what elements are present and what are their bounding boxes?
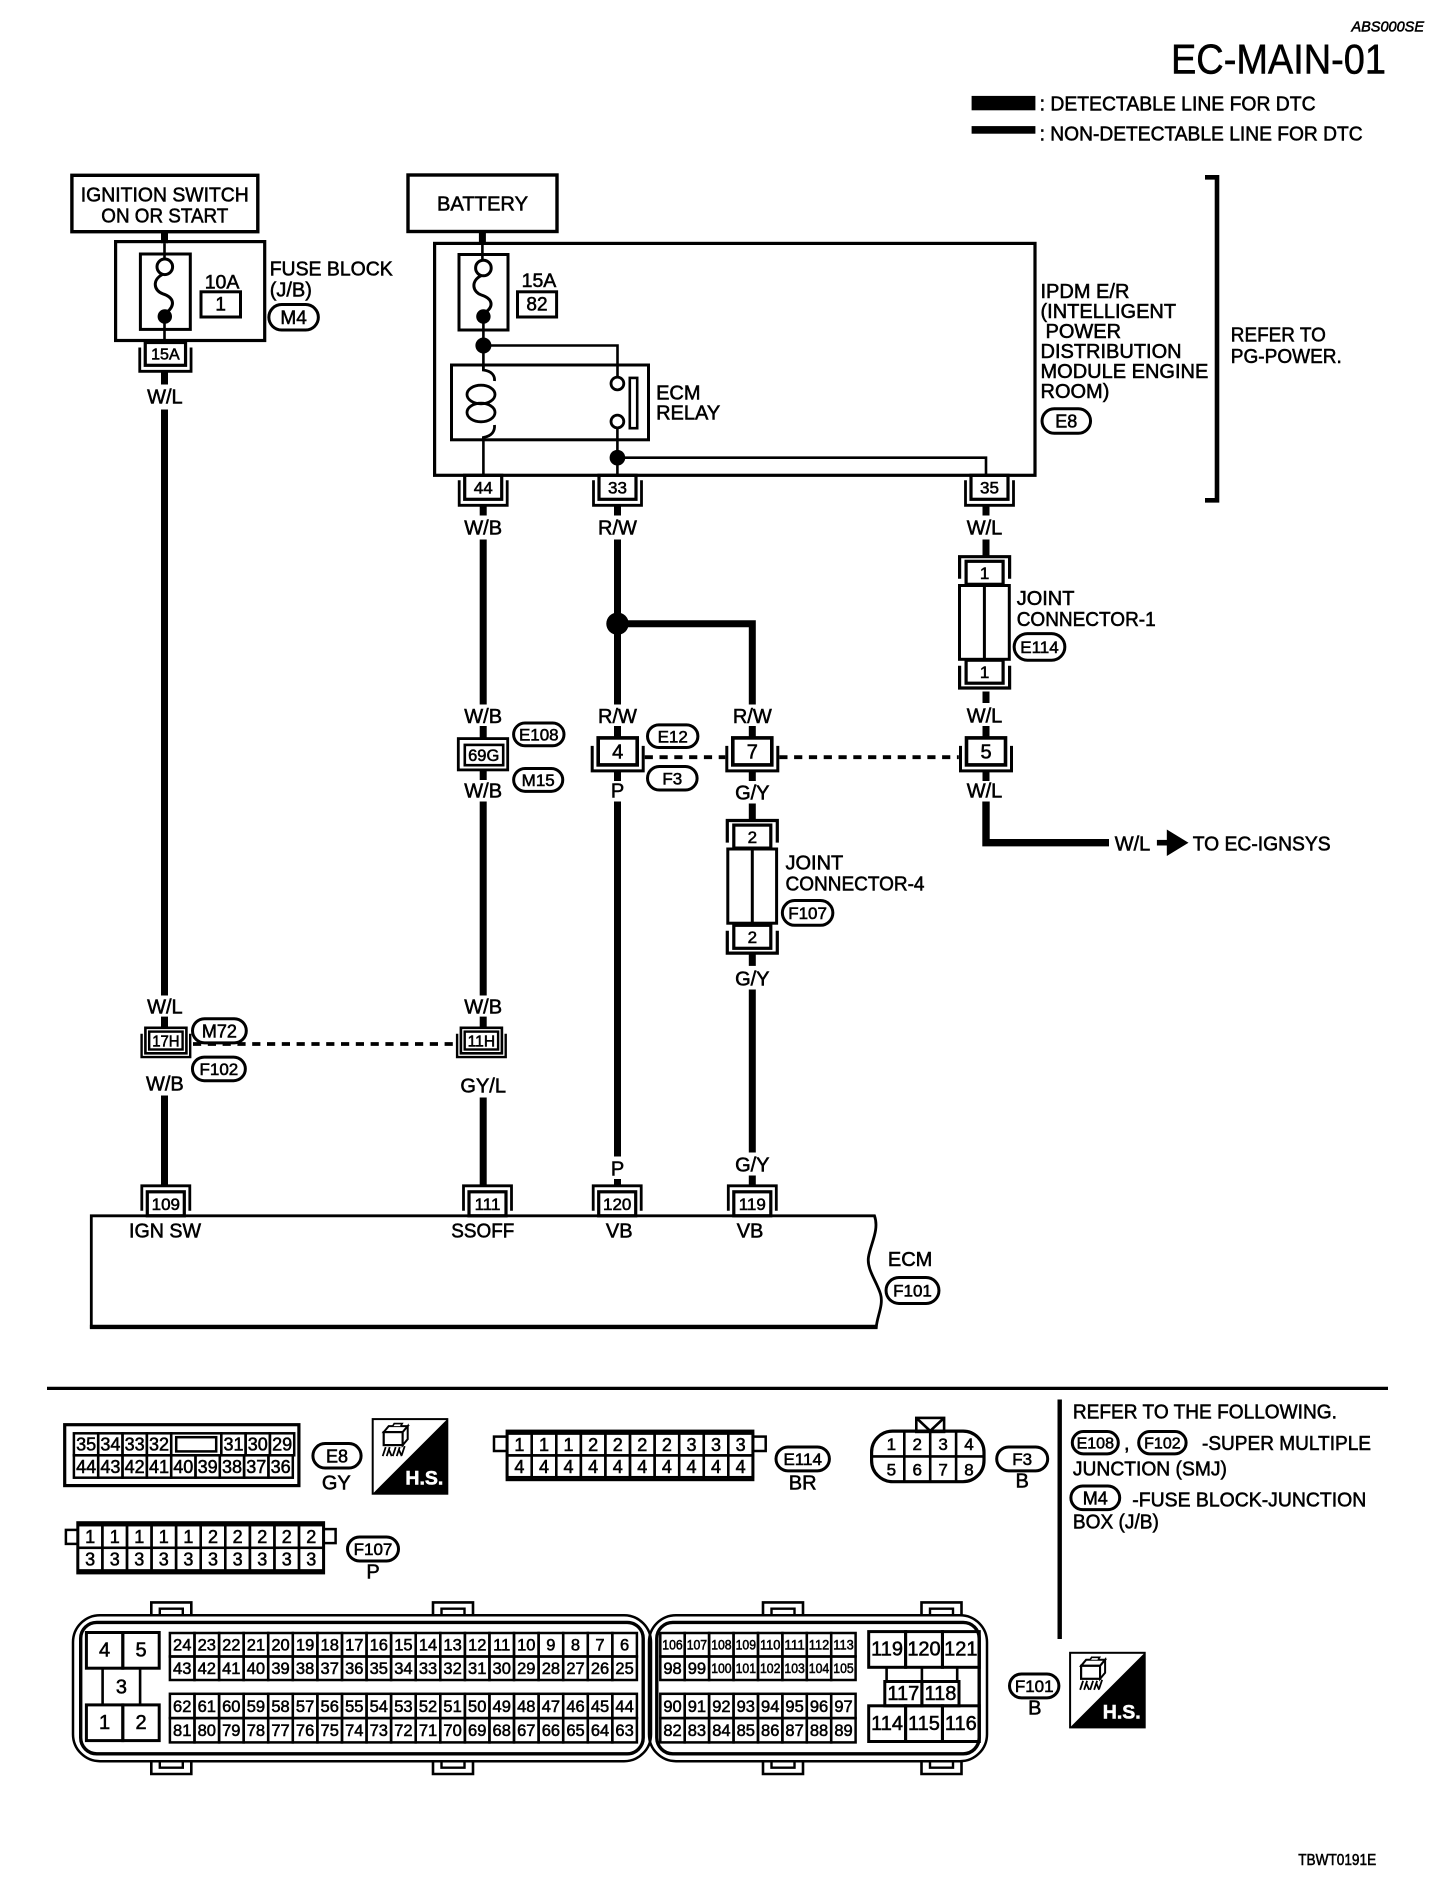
svg-text:40: 40 xyxy=(247,1660,265,1678)
svg-text:2: 2 xyxy=(282,1527,292,1547)
fuse 10A symbol box xyxy=(140,243,190,329)
svg-text:W/B: W/B xyxy=(464,781,502,803)
label GY/L below 11H xyxy=(460,1076,506,1098)
svg-text:3: 3 xyxy=(711,1435,721,1455)
wire W/L ignition column xyxy=(161,410,168,996)
wire stub P to pin 120 xyxy=(614,1179,621,1187)
svg-text:119: 119 xyxy=(871,1639,903,1661)
svg-text:2: 2 xyxy=(233,1527,243,1547)
svg-text:115: 115 xyxy=(908,1713,940,1735)
svg-text:F3: F3 xyxy=(1012,1450,1032,1469)
wire GY/L to ECM pin 111 xyxy=(480,1098,487,1188)
wire G/Y long xyxy=(749,990,756,1153)
svg-text:66: 66 xyxy=(542,1722,560,1740)
svg-text:3: 3 xyxy=(159,1550,169,1570)
svg-text:22: 22 xyxy=(222,1637,240,1655)
svg-text:RELAY: RELAY xyxy=(656,403,720,425)
svg-text:41: 41 xyxy=(222,1660,240,1678)
svg-text:35: 35 xyxy=(980,478,999,497)
doc code TBWT0191E xyxy=(1298,1852,1376,1869)
svg-text:114: 114 xyxy=(871,1713,903,1735)
fuse number 1 box xyxy=(201,292,241,317)
doc code ABS000SE xyxy=(1350,20,1424,36)
svg-text:E108: E108 xyxy=(1077,1435,1114,1452)
label SSOFF xyxy=(451,1221,514,1243)
svg-text:2: 2 xyxy=(588,1435,598,1455)
svg-text:2: 2 xyxy=(637,1435,647,1455)
svg-text:5: 5 xyxy=(135,1640,146,1662)
svg-text:110: 110 xyxy=(760,1638,780,1653)
IPDM terminal 33 xyxy=(594,475,642,505)
svg-text:W/B: W/B xyxy=(146,1074,184,1096)
label TO EC-IGNSYS xyxy=(1193,834,1331,856)
wire W/B column xyxy=(480,540,487,705)
svg-text:G/Y: G/Y xyxy=(735,783,769,805)
svg-text:32: 32 xyxy=(443,1660,461,1678)
svg-text:4: 4 xyxy=(662,1457,672,1477)
svg-text:6: 6 xyxy=(912,1460,921,1479)
svg-text:42: 42 xyxy=(198,1660,216,1678)
svg-text:F102: F102 xyxy=(1144,1435,1181,1452)
connector ref F102 xyxy=(192,1057,245,1081)
svg-text:CONNECTOR-1: CONNECTOR-1 xyxy=(1017,609,1156,631)
svg-text:1: 1 xyxy=(99,1712,110,1734)
fuse 10A element xyxy=(155,259,172,343)
svg-text:80: 80 xyxy=(198,1722,216,1740)
svg-text:21: 21 xyxy=(247,1637,265,1655)
connector view E8 grid xyxy=(65,1425,299,1486)
svg-text:W/L: W/L xyxy=(967,518,1003,540)
wire stub below pin 4 xyxy=(614,771,621,781)
ECM connector left grid rows 62-44 and 81-63 xyxy=(170,1694,637,1743)
label ECM xyxy=(888,1249,932,1271)
svg-text:7: 7 xyxy=(595,1637,604,1655)
svg-text:119: 119 xyxy=(739,1195,766,1214)
svg-text:4: 4 xyxy=(637,1457,647,1477)
svg-text:4: 4 xyxy=(964,1435,973,1454)
svg-text:63: 63 xyxy=(615,1722,633,1740)
svg-text:4: 4 xyxy=(99,1640,110,1662)
svg-text:MODULE ENGINE: MODULE ENGINE xyxy=(1041,361,1209,383)
svg-text:28: 28 xyxy=(542,1660,560,1678)
label G/Y below joint connector 4 xyxy=(735,969,769,991)
svg-text:38: 38 xyxy=(222,1457,242,1477)
IPDM terminal 35 xyxy=(966,475,1014,505)
svg-text:31: 31 xyxy=(468,1660,486,1678)
svg-text:BR: BR xyxy=(789,1473,817,1495)
svg-text:,: , xyxy=(1124,1433,1130,1455)
svg-text:JOINT: JOINT xyxy=(1017,588,1075,610)
svg-text:60: 60 xyxy=(222,1698,240,1716)
svg-text:EC-MAIN-01: EC-MAIN-01 xyxy=(1171,36,1386,83)
svg-text:24: 24 xyxy=(173,1637,191,1655)
connector ref E8 view xyxy=(313,1444,361,1495)
svg-text:2: 2 xyxy=(135,1712,146,1734)
svg-text:56: 56 xyxy=(321,1698,339,1716)
wire stub below joint connector 4 xyxy=(749,953,756,966)
connector view F107 grid xyxy=(66,1523,336,1573)
svg-text:F102: F102 xyxy=(200,1060,239,1079)
svg-text:(INTELLIGENT: (INTELLIGENT xyxy=(1041,301,1177,323)
svg-text:14: 14 xyxy=(419,1637,437,1655)
svg-text:F101: F101 xyxy=(1015,1677,1054,1696)
wire stub into pin 4 xyxy=(614,726,621,738)
ECM box xyxy=(90,1216,881,1327)
svg-text:4: 4 xyxy=(539,1457,549,1477)
svg-text:47: 47 xyxy=(542,1698,560,1716)
svg-text:1: 1 xyxy=(563,1435,573,1455)
svg-text:2: 2 xyxy=(208,1527,218,1547)
svg-text:1: 1 xyxy=(980,564,989,583)
svg-text:69: 69 xyxy=(468,1722,486,1740)
svg-text:33: 33 xyxy=(419,1660,437,1678)
svg-text:8: 8 xyxy=(964,1460,973,1479)
connector ref M4 xyxy=(269,305,319,331)
svg-text:4: 4 xyxy=(613,1457,623,1477)
svg-text:3: 3 xyxy=(257,1550,267,1570)
svg-text:1: 1 xyxy=(183,1527,193,1547)
joint connector-1 top terminal 1 xyxy=(960,557,1010,585)
fuse 15A symbol box xyxy=(459,243,508,330)
IPDM terminal 44 xyxy=(459,475,507,505)
joint connector-4 bottom terminal 2 xyxy=(727,925,777,953)
svg-text:74: 74 xyxy=(345,1722,363,1740)
ECM connector right grid rows 106-113 and 98-105 xyxy=(660,1633,855,1680)
svg-text:15: 15 xyxy=(394,1637,412,1655)
svg-text:121: 121 xyxy=(944,1639,977,1661)
label 10A xyxy=(205,272,240,294)
svg-text:P: P xyxy=(366,1562,379,1584)
ECM terminal 111 xyxy=(464,1186,512,1216)
ECM terminal 120 xyxy=(593,1186,641,1216)
wire battery to IPDM xyxy=(479,232,486,244)
svg-text:R/W: R/W xyxy=(733,706,772,728)
connector ref M72 xyxy=(193,1019,247,1043)
wire junction to relay contact xyxy=(483,346,617,377)
connector ref E114 view xyxy=(776,1447,829,1495)
svg-text:34: 34 xyxy=(100,1435,120,1455)
wire stub below pin 5 xyxy=(983,771,990,781)
label P below pin 4 xyxy=(611,781,624,803)
label IGN SW xyxy=(129,1221,201,1243)
fuse block (J/B) box xyxy=(116,242,265,341)
svg-text:59: 59 xyxy=(247,1698,265,1716)
svg-text:99: 99 xyxy=(688,1660,706,1678)
relay contact circles and bar xyxy=(611,377,637,428)
terminal 7 xyxy=(727,738,778,771)
svg-text:4: 4 xyxy=(563,1457,573,1477)
wire stub below pin 7 xyxy=(749,771,756,781)
label W/L arrow xyxy=(1115,834,1151,856)
svg-text:35: 35 xyxy=(370,1660,388,1678)
svg-text:E114: E114 xyxy=(1020,638,1058,657)
svg-text:41: 41 xyxy=(149,1457,169,1477)
terminal 5 xyxy=(961,738,1012,771)
svg-text:32: 32 xyxy=(149,1435,169,1455)
svg-text:1: 1 xyxy=(159,1527,169,1547)
ECM terminal 109 xyxy=(142,1186,190,1216)
wire W/B to ECM pin 109 xyxy=(161,1096,168,1188)
svg-text:P: P xyxy=(611,1159,624,1181)
svg-text:: NON-DETECTABLE LINE FOR DTC: : NON-DETECTABLE LINE FOR DTC xyxy=(1040,124,1363,146)
label G/Y above pin 119 xyxy=(735,1155,769,1177)
svg-text:ECM: ECM xyxy=(888,1249,932,1271)
svg-text:IPDM E/R: IPDM E/R xyxy=(1041,281,1130,303)
svg-text:P: P xyxy=(611,781,624,803)
svg-text:118: 118 xyxy=(924,1683,956,1705)
svg-text:W/B: W/B xyxy=(464,706,502,728)
svg-text:49: 49 xyxy=(493,1698,511,1716)
svg-text:48: 48 xyxy=(517,1698,535,1716)
separator line xyxy=(47,1387,1388,1390)
svg-text:117: 117 xyxy=(887,1683,919,1705)
svg-text:109: 109 xyxy=(736,1638,756,1653)
svg-text:79: 79 xyxy=(222,1722,240,1740)
svg-text:JOINT: JOINT xyxy=(786,853,844,875)
label VB pin 120 xyxy=(606,1221,633,1243)
svg-text:23: 23 xyxy=(198,1637,216,1655)
svg-text:109: 109 xyxy=(152,1195,180,1214)
svg-text:62: 62 xyxy=(173,1698,191,1716)
svg-text:2: 2 xyxy=(912,1435,921,1454)
SMJ terminal 11H xyxy=(457,1028,506,1057)
label BOX (J/B) xyxy=(1073,1512,1159,1534)
label 15A xyxy=(522,270,557,292)
label R/W pin33 xyxy=(598,518,637,540)
svg-text:94: 94 xyxy=(761,1698,779,1716)
svg-text:88: 88 xyxy=(810,1722,828,1740)
svg-text:W/L: W/L xyxy=(967,781,1003,803)
svg-text:REFER TO THE FOLLOWING.: REFER TO THE FOLLOWING. xyxy=(1073,1402,1337,1424)
svg-text:120: 120 xyxy=(907,1639,940,1661)
connector ref F101 xyxy=(886,1278,939,1304)
svg-text:IGNITION SWITCH: IGNITION SWITCH xyxy=(81,184,249,207)
svg-text:E108: E108 xyxy=(519,726,559,745)
svg-text:75: 75 xyxy=(321,1722,339,1740)
svg-text:3: 3 xyxy=(938,1435,947,1454)
svg-text:55: 55 xyxy=(345,1698,363,1716)
svg-text:43: 43 xyxy=(100,1457,120,1477)
wire stub G/Y to pin 119 xyxy=(749,1176,756,1188)
wire R/W branch to pin 7 xyxy=(618,624,753,705)
svg-text:33: 33 xyxy=(125,1435,145,1455)
svg-text:F3: F3 xyxy=(662,769,682,788)
svg-text:ROOM): ROOM) xyxy=(1041,381,1110,403)
dashed line pin7 to pin5 xyxy=(779,755,959,759)
svg-text:E114: E114 xyxy=(783,1450,821,1469)
svg-text:-FUSE BLOCK-JUNCTION: -FUSE BLOCK-JUNCTION xyxy=(1132,1490,1366,1512)
wire stub into pin 7 xyxy=(749,726,756,738)
svg-text:SSOFF: SSOFF xyxy=(451,1221,514,1243)
label W/B below 17H xyxy=(146,1074,184,1096)
svg-text:B: B xyxy=(1028,1698,1041,1720)
svg-text:4: 4 xyxy=(711,1457,721,1477)
wire stub pin 35 xyxy=(983,506,990,516)
svg-text:104: 104 xyxy=(809,1661,830,1676)
label JOINT CONNECTOR-1 xyxy=(1017,588,1156,631)
svg-text:51: 51 xyxy=(443,1698,461,1716)
svg-text:30: 30 xyxy=(248,1435,268,1455)
joint connector-1 body xyxy=(960,586,1010,660)
svg-text:W/L: W/L xyxy=(147,387,183,409)
svg-text:36: 36 xyxy=(271,1457,291,1477)
svg-text:M72: M72 xyxy=(202,1021,237,1041)
svg-text:52: 52 xyxy=(419,1698,437,1716)
svg-text:FUSE BLOCK: FUSE BLOCK xyxy=(270,259,394,281)
svg-text:1: 1 xyxy=(85,1527,95,1547)
svg-text:1: 1 xyxy=(539,1435,549,1455)
svg-text:105: 105 xyxy=(833,1661,853,1676)
svg-text:3: 3 xyxy=(686,1435,696,1455)
svg-text:111: 111 xyxy=(784,1638,804,1653)
svg-text:30: 30 xyxy=(493,1660,511,1678)
svg-text:2: 2 xyxy=(748,828,757,847)
svg-text:TO EC-IGNSYS: TO EC-IGNSYS xyxy=(1193,834,1331,856)
svg-text:F107: F107 xyxy=(788,904,827,923)
svg-text:37: 37 xyxy=(246,1457,266,1477)
svg-text:53: 53 xyxy=(394,1698,412,1716)
label G/Y below pin 7 xyxy=(735,783,769,805)
svg-text:W/L: W/L xyxy=(147,997,183,1019)
svg-text:26: 26 xyxy=(591,1660,609,1678)
ref M4 fuse block xyxy=(1071,1486,1366,1512)
svg-text:89: 89 xyxy=(834,1722,852,1740)
svg-text:1: 1 xyxy=(110,1527,120,1547)
label JOINT CONNECTOR-4 xyxy=(786,853,925,896)
relay coil xyxy=(467,366,495,439)
svg-text:111: 111 xyxy=(475,1195,501,1214)
H.S. logo bottom xyxy=(1070,1653,1145,1728)
svg-text:19: 19 xyxy=(296,1637,314,1655)
svg-text:10: 10 xyxy=(517,1637,535,1655)
svg-text:W/B: W/B xyxy=(464,997,502,1019)
connector ref M15 xyxy=(514,768,563,791)
svg-text:61: 61 xyxy=(198,1698,216,1716)
svg-text:82: 82 xyxy=(526,295,547,316)
ECM connector left pin block 4 5 3 1 2 xyxy=(86,1633,159,1741)
svg-text:3: 3 xyxy=(85,1550,95,1570)
wire junction down to relay coil xyxy=(482,346,485,367)
svg-text:E8: E8 xyxy=(1055,411,1077,431)
wire R/W column xyxy=(614,540,621,705)
svg-text:4: 4 xyxy=(612,742,623,764)
svg-text:JUNCTION (SMJ): JUNCTION (SMJ) xyxy=(1073,1459,1227,1481)
svg-text:58: 58 xyxy=(271,1698,289,1716)
svg-text:2: 2 xyxy=(662,1435,672,1455)
svg-text:5: 5 xyxy=(887,1460,896,1479)
wire junction to pin 33 xyxy=(616,458,619,476)
svg-text:33: 33 xyxy=(608,478,627,497)
svg-text:3: 3 xyxy=(134,1550,144,1570)
wire stub pin 44 xyxy=(480,506,487,516)
label FUSE BLOCK (J/B) xyxy=(270,259,394,302)
svg-text:11: 11 xyxy=(493,1637,510,1655)
svg-text:91: 91 xyxy=(688,1698,706,1716)
wire stub pin 33 xyxy=(614,506,621,516)
svg-text:29: 29 xyxy=(517,1660,535,1678)
svg-text:12: 12 xyxy=(468,1637,486,1655)
connector ref E108 xyxy=(514,723,564,746)
svg-text:68: 68 xyxy=(493,1722,511,1740)
svg-text:8: 8 xyxy=(571,1637,580,1655)
svg-text:43: 43 xyxy=(173,1660,191,1678)
wire W/L to joint connector 1 xyxy=(983,540,990,558)
svg-text:106: 106 xyxy=(662,1638,682,1653)
connector ref E8 xyxy=(1042,409,1091,434)
connector ref F107 joint xyxy=(782,901,833,926)
svg-text:15A: 15A xyxy=(522,270,557,292)
svg-text:3: 3 xyxy=(208,1550,218,1570)
fuse 15A element xyxy=(474,260,491,323)
svg-text:76: 76 xyxy=(296,1722,314,1740)
connector ref E12 xyxy=(648,725,698,748)
svg-text:40: 40 xyxy=(173,1457,193,1477)
label R/W above pin 7 xyxy=(733,706,772,728)
svg-text:96: 96 xyxy=(810,1698,828,1716)
svg-text:93: 93 xyxy=(737,1698,755,1716)
ignition switch box xyxy=(72,175,258,231)
svg-text:1: 1 xyxy=(980,663,989,682)
svg-text:2: 2 xyxy=(257,1527,267,1547)
svg-text:BOX (J/B): BOX (J/B) xyxy=(1073,1512,1159,1534)
svg-text:46: 46 xyxy=(566,1698,584,1716)
SMJ terminal 69G xyxy=(458,739,507,770)
svg-text:3: 3 xyxy=(116,1677,127,1699)
wire fuse to junction xyxy=(482,323,485,346)
svg-text:BATTERY: BATTERY xyxy=(437,193,528,216)
svg-text:116: 116 xyxy=(945,1713,977,1735)
label R/W above pin 4 xyxy=(598,706,637,728)
svg-text:29: 29 xyxy=(272,1435,292,1455)
svg-text:F101: F101 xyxy=(893,1282,932,1301)
label W/L xyxy=(147,387,183,409)
ECM connector left grid rows 24-6 and 43-25 xyxy=(170,1633,637,1680)
label W/B pin44 xyxy=(464,518,502,540)
svg-text:3: 3 xyxy=(282,1550,292,1570)
svg-text:6: 6 xyxy=(620,1637,629,1655)
terminal 15A below fuse block xyxy=(140,343,191,372)
wire stub below joint connector 1 xyxy=(983,692,990,704)
svg-text:72: 72 xyxy=(394,1722,412,1740)
legend detectable line bar xyxy=(972,96,1036,110)
label W/B below 69G xyxy=(464,781,502,803)
svg-text:B: B xyxy=(1016,1471,1029,1493)
label W/B above 11H xyxy=(464,997,502,1019)
svg-text:9: 9 xyxy=(546,1637,555,1655)
wire stub into 11H xyxy=(480,1017,487,1028)
svg-text:E8: E8 xyxy=(326,1446,348,1466)
wire relay coil to pin 44 xyxy=(482,440,485,476)
svg-text:90: 90 xyxy=(663,1698,681,1716)
svg-text:M4: M4 xyxy=(1083,1488,1108,1508)
battery box xyxy=(408,175,557,232)
svg-text:103: 103 xyxy=(784,1661,804,1676)
label ECM RELAY xyxy=(656,383,720,425)
svg-text:17: 17 xyxy=(345,1637,363,1655)
svg-text:86: 86 xyxy=(761,1722,779,1740)
svg-text:2: 2 xyxy=(748,928,757,947)
connector ref E114 joint xyxy=(1014,634,1065,661)
svg-text:H.S.: H.S. xyxy=(405,1468,443,1490)
svg-text:F107: F107 xyxy=(354,1540,393,1559)
svg-text:VB: VB xyxy=(606,1221,633,1243)
svg-text:112: 112 xyxy=(809,1638,829,1653)
svg-text:3: 3 xyxy=(736,1435,746,1455)
svg-text:44: 44 xyxy=(474,478,493,497)
svg-text:ABS000SE: ABS000SE xyxy=(1350,20,1424,36)
svg-text:G/Y: G/Y xyxy=(735,969,769,991)
svg-text:H.S.: H.S. xyxy=(1103,1701,1141,1723)
